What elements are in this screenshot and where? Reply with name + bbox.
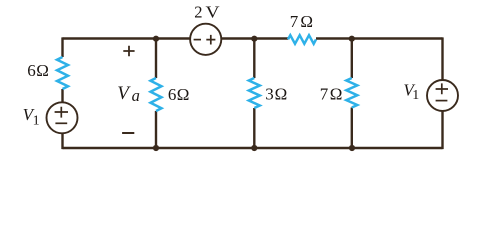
node dot bottom 7ohm: [349, 145, 355, 151]
resistor 7ohm vertical (zigzag): [346, 78, 357, 108]
node dot top 7ohm: [349, 36, 355, 42]
resistor 6ohm middle (zigzag): [151, 78, 162, 111]
node dot top Va: [153, 36, 159, 42]
wire top left: corner to 2V source: [63, 37, 191, 39]
Va polarity minus sign: [122, 132, 134, 134]
label 2 V: [194, 3, 220, 22]
svg-text:7: 7: [320, 85, 329, 104]
svg-text:a: a: [132, 86, 140, 105]
wire branch 3ohm upper: [253, 39, 255, 79]
resistor 7ohm horizontal (zigzag): [288, 35, 316, 44]
wire branch Va lower: [155, 111, 157, 148]
2V source minus sign: [194, 39, 201, 41]
wire branch 3ohm lower: [253, 108, 255, 148]
wire right branch lower: [441, 111, 443, 149]
svg-text:3: 3: [265, 85, 274, 104]
wire top: 2V source to 7ohm horizontal resistor: [221, 37, 288, 39]
voltage source V1 right circle: [427, 80, 458, 111]
2V source plus sign: [206, 35, 215, 45]
label 3 ohm: [265, 85, 287, 104]
svg-text:Ω: Ω: [300, 12, 313, 31]
wire branch 7ohm lower: [351, 108, 353, 149]
wire left branch lower: [61, 133, 63, 149]
svg-text:Ω: Ω: [330, 85, 343, 104]
V1 right plus sign: [436, 83, 448, 94]
label 6 ohm middle: [168, 85, 190, 104]
label 6 ohm left: [27, 61, 49, 80]
label V1 right: [403, 81, 419, 104]
label V1 left: [23, 105, 40, 128]
node dot bottom Va: [153, 145, 159, 151]
node dot top 3ohm: [251, 36, 257, 42]
label Va: [117, 83, 140, 105]
Va polarity plus sign: [123, 46, 134, 57]
node dot bottom 3ohm: [251, 145, 257, 151]
svg-text:6: 6: [168, 85, 177, 104]
V1 left minus sign: [55, 122, 67, 124]
V1 left plus sign: [55, 107, 68, 118]
wire branch 7ohm upper: [351, 39, 353, 79]
svg-text:2: 2: [194, 3, 202, 22]
resistor 3ohm (zigzag): [249, 78, 260, 108]
svg-text:1: 1: [412, 88, 419, 103]
svg-text:V: V: [206, 3, 221, 22]
voltage source 2V circle: [190, 24, 221, 55]
wire branch Va upper: [155, 39, 157, 79]
voltage source V1 left circle: [47, 102, 78, 133]
svg-text:6: 6: [27, 61, 36, 80]
svg-text:Ω: Ω: [177, 85, 190, 104]
V1 right minus sign: [436, 100, 448, 102]
wire left branch upper: [61, 37, 63, 57]
wire left branch middle: [61, 89, 63, 103]
wire bottom: [63, 147, 443, 149]
svg-text:7: 7: [290, 12, 299, 31]
svg-text:Ω: Ω: [36, 61, 49, 80]
wire right branch upper: [441, 37, 443, 80]
wire top right: resistor to right corner: [316, 37, 443, 39]
svg-text:1: 1: [33, 113, 40, 128]
svg-text:Ω: Ω: [275, 85, 288, 104]
label 7 ohm vertical: [320, 85, 343, 104]
resistor 6ohm left (zigzag): [57, 57, 68, 89]
label 7 ohm top: [290, 12, 313, 31]
